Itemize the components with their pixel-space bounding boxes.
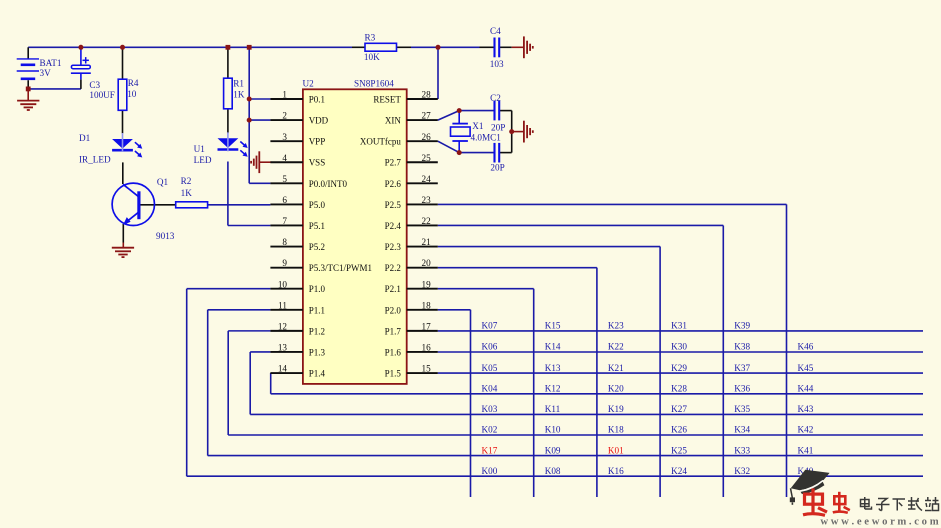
capacitor C2 top — [490, 93, 505, 132]
svg-text:P2.4: P2.4 — [385, 221, 402, 231]
pin 6 P5.0 — [270, 195, 325, 210]
wire R4 branch: rail to R4 to D1 to Q1 collector — [122, 47, 124, 184]
capacitor C4 — [490, 26, 504, 69]
svg-text:P2.3: P2.3 — [385, 242, 402, 252]
svg-text:XIN: XIN — [385, 116, 401, 126]
svg-text:K29: K29 — [671, 363, 687, 373]
svg-text:103: 103 — [490, 59, 504, 69]
svg-text:P1.4: P1.4 — [309, 369, 326, 379]
pin 22 P2.4 — [385, 216, 438, 231]
svg-text:16: 16 — [422, 343, 432, 353]
ground at pin4 VSS — [251, 151, 259, 173]
svg-text:K01: K01 — [608, 445, 624, 455]
svg-text:9: 9 — [282, 258, 287, 268]
svg-text:K38: K38 — [734, 342, 750, 352]
wire crystal node to C2 bottom — [459, 152, 493, 154]
svg-text:K26: K26 — [671, 425, 687, 435]
svg-text:VDD: VDD — [309, 116, 329, 126]
pin 21 P2.3 — [385, 237, 438, 252]
svg-text:P2.5: P2.5 — [385, 200, 402, 210]
svg-text:D1: D1 — [79, 133, 91, 143]
wire pin 21 key matrix column — [438, 247, 660, 497]
svg-text:K22: K22 — [608, 342, 624, 352]
svg-text:12: 12 — [278, 321, 288, 331]
svg-text:P5.3/TC1/PWM1: P5.3/TC1/PWM1 — [309, 263, 372, 273]
wire XOUT diagonal to crystal — [438, 141, 459, 152]
svg-text:U2: U2 — [303, 79, 315, 89]
svg-text:K45: K45 — [798, 363, 814, 373]
wire P1.2 (pin 12) to key matrix row — [228, 331, 923, 435]
ground below battery — [17, 101, 39, 110]
wire battery negative to ground/C3 — [28, 80, 81, 100]
svg-text:13: 13 — [278, 343, 288, 353]
svg-text:LED: LED — [194, 155, 212, 165]
svg-text:K35: K35 — [734, 404, 750, 414]
pin 26 XOUTfcpu — [360, 132, 438, 147]
pin 16 P1.6 — [385, 343, 438, 358]
pin 14 P1.4 — [270, 364, 325, 379]
svg-text:w w w . e e w o r m . c o m: w w w . e e w o r m . c o m — [820, 516, 938, 528]
svg-text:K24: K24 — [671, 466, 687, 476]
junction rail/R4 — [120, 45, 125, 50]
svg-text:1K: 1K — [181, 188, 193, 198]
svg-text:K39: K39 — [734, 321, 750, 331]
svg-text:28: 28 — [422, 90, 432, 100]
svg-text:P1.1: P1.1 — [309, 305, 325, 315]
svg-text:K42: K42 — [798, 425, 814, 435]
svg-text:21: 21 — [422, 237, 432, 247]
wire P1.4 (pin 14) to key matrix row — [271, 373, 923, 394]
svg-text:27: 27 — [422, 111, 432, 121]
svg-text:P5.1: P5.1 — [309, 221, 325, 231]
wire C3 leads — [80, 47, 82, 89]
capacitor C3 — [71, 57, 115, 100]
junction rail/R1 — [226, 45, 231, 50]
svg-text:K21: K21 — [608, 363, 624, 373]
svg-text:14: 14 — [278, 364, 288, 374]
wire pin 22 key matrix column — [438, 225, 724, 497]
svg-text:P5.0: P5.0 — [309, 200, 326, 210]
svg-text:K20: K20 — [608, 384, 624, 394]
svg-text:22: 22 — [422, 216, 432, 226]
svg-text:K31: K31 — [671, 321, 687, 331]
wire pin 19 key matrix column — [438, 289, 534, 497]
pin 9 P5.3/TC1/PWM1 — [270, 258, 372, 273]
svg-text:K25: K25 — [671, 445, 687, 455]
svg-text:C2: C2 — [490, 93, 501, 103]
svg-text:K28: K28 — [671, 384, 687, 394]
logo text dianzi xiazaizhan — [861, 497, 939, 511]
svg-text:K18: K18 — [608, 425, 624, 435]
svg-text:25: 25 — [422, 153, 432, 163]
svg-text:BAT1: BAT1 — [40, 58, 62, 68]
svg-text:K12: K12 — [545, 384, 561, 394]
svg-text:P1.2: P1.2 — [309, 326, 325, 336]
svg-text:P2.2: P2.2 — [385, 263, 401, 273]
pin 24 P2.6 — [385, 174, 438, 189]
svg-text:K33: K33 — [734, 445, 750, 455]
svg-text:P1.5: P1.5 — [385, 369, 402, 379]
junction rail/RESET — [436, 45, 441, 50]
ground right of C4 — [524, 36, 533, 58]
wire XIN diagonal to crystal — [438, 111, 459, 121]
svg-text:K15: K15 — [545, 321, 561, 331]
svg-text:15: 15 — [422, 364, 432, 374]
wire pin 17 key matrix row — [438, 330, 923, 332]
svg-text:17: 17 — [422, 321, 432, 331]
pin 10 P1.0 — [270, 279, 325, 294]
svg-text:K34: K34 — [734, 425, 750, 435]
pin 25 P2.7 — [385, 153, 438, 168]
pin 5 P0.0/INT0 — [270, 174, 347, 189]
svg-text:P0.0/INT0: P0.0/INT0 — [309, 179, 348, 189]
svg-text:3V: 3V — [40, 68, 52, 78]
capacitor C2 bottom — [490, 143, 504, 173]
pin 23 P2.5 — [385, 195, 438, 210]
junction C2 ground node — [509, 129, 514, 134]
svg-text:6: 6 — [282, 195, 287, 205]
resistor R4 — [118, 78, 139, 110]
svg-text:11: 11 — [278, 300, 287, 310]
svg-text:P2.1: P2.1 — [385, 284, 401, 294]
LED U1 — [194, 132, 248, 165]
svg-text:K46: K46 — [798, 342, 814, 352]
wire pin 20 key matrix column — [438, 268, 597, 497]
svg-text:R4: R4 — [128, 78, 139, 88]
wire pin4 VSS to ground — [259, 161, 271, 163]
svg-text:24: 24 — [422, 174, 432, 184]
svg-text:K05: K05 — [482, 363, 498, 373]
svg-text:P2.0: P2.0 — [385, 305, 402, 315]
svg-text:K16: K16 — [608, 466, 624, 476]
svg-text:XOUTfcpu: XOUTfcpu — [360, 137, 401, 147]
svg-text:P1.6: P1.6 — [385, 347, 402, 357]
wire pin 15 key matrix row — [438, 372, 923, 374]
svg-text:VPP: VPP — [309, 137, 326, 147]
svg-text:K30: K30 — [671, 342, 687, 352]
pin 18 P2.0 — [385, 300, 438, 315]
svg-text:100UF: 100UF — [89, 90, 115, 100]
svg-text:C3: C3 — [89, 80, 100, 90]
svg-text:18: 18 — [422, 300, 432, 310]
ground right of C2 — [524, 121, 533, 143]
wire pin 18 key matrix column — [438, 310, 471, 497]
svg-text:K06: K06 — [482, 342, 498, 352]
svg-text:U1: U1 — [194, 144, 206, 154]
pin 8 P5.2 — [270, 237, 325, 252]
svg-text:SN8P1604: SN8P1604 — [354, 79, 394, 89]
pin 19 P2.1 — [385, 279, 438, 294]
wire VDD net: rail to pins 1,2,5 — [249, 47, 270, 183]
wire Q1 emitter to ground — [122, 224, 124, 248]
svg-text:K02: K02 — [482, 425, 498, 435]
svg-text:K00: K00 — [482, 466, 498, 476]
svg-text:1K: 1K — [233, 89, 245, 99]
svg-text:K09: K09 — [545, 445, 561, 455]
svg-text:23: 23 — [422, 195, 432, 205]
pin 4 VSS — [270, 153, 325, 168]
svg-text:K11: K11 — [545, 404, 561, 414]
pin 12 P1.2 — [270, 321, 325, 336]
svg-text:RESET: RESET — [373, 95, 401, 105]
svg-text:R1: R1 — [233, 79, 244, 89]
svg-text:P1.0: P1.0 — [309, 284, 326, 294]
svg-text:9013: 9013 — [156, 231, 175, 241]
svg-text:P2.7: P2.7 — [385, 158, 402, 168]
svg-text:P1.7: P1.7 — [385, 326, 402, 336]
wire P1.1 (pin 11) to key matrix row — [208, 310, 923, 456]
svg-text:K04: K04 — [482, 384, 498, 394]
junction crystal top node — [457, 108, 462, 113]
wire R1 branch: rail to R1 to U1 — [227, 47, 229, 133]
pin 11 P1.1 — [270, 300, 325, 315]
wire P1.3 (pin 13) to key matrix row — [250, 352, 923, 414]
svg-text:K13: K13 — [545, 363, 561, 373]
wire pin 16 key matrix row — [438, 351, 923, 353]
svg-text:10: 10 — [127, 89, 137, 99]
resistor R1 — [224, 78, 245, 109]
ground below Q1 — [112, 248, 134, 257]
svg-text:K37: K37 — [734, 363, 750, 373]
svg-text:K03: K03 — [482, 404, 498, 414]
svg-text:Q1: Q1 — [157, 177, 169, 187]
wire RESET net: rail dot down to pin 28 — [437, 47, 439, 99]
wire crystal X1 leads — [458, 111, 460, 153]
pin 3 VPP — [270, 132, 325, 147]
svg-text:2: 2 — [282, 111, 287, 121]
pin 17 P1.7 — [385, 321, 438, 336]
resistor R3 — [364, 33, 397, 62]
pin 20 P2.2 — [385, 258, 438, 273]
crystal X1 — [451, 121, 502, 143]
svg-text:3: 3 — [282, 132, 287, 142]
svg-text:7: 7 — [282, 216, 287, 226]
svg-text:R3: R3 — [365, 33, 376, 43]
pin 7 P5.1 — [270, 216, 325, 231]
junction battery negative node — [26, 87, 31, 92]
svg-text:K36: K36 — [734, 384, 750, 394]
resistor R2 — [176, 176, 208, 208]
svg-text:C4: C4 — [490, 26, 501, 36]
svg-text:K10: K10 — [545, 425, 561, 435]
svg-text:VSS: VSS — [309, 158, 326, 168]
junction VDD/pin2 — [247, 118, 252, 123]
pin 1 P0.1 — [270, 90, 325, 105]
wire pin 23 key matrix column — [438, 204, 787, 497]
svg-text:P2.6: P2.6 — [385, 179, 402, 189]
svg-text:4.0MC1: 4.0MC1 — [471, 133, 502, 143]
svg-text:K43: K43 — [798, 404, 814, 414]
svg-text:R2: R2 — [181, 176, 192, 186]
junction crystal bottom node — [457, 150, 462, 155]
svg-text:K19: K19 — [608, 404, 624, 414]
svg-text:K14: K14 — [545, 342, 561, 352]
svg-text:P5.2: P5.2 — [309, 242, 325, 252]
wire P1.0 (pin 10) to key matrix row — [187, 289, 923, 476]
svg-text:K17: K17 — [482, 445, 498, 455]
svg-text:K44: K44 — [798, 384, 814, 394]
logo graduation cap — [790, 470, 830, 505]
pin 27 XIN — [385, 111, 438, 126]
svg-text:19: 19 — [422, 279, 432, 289]
logo chongchong red characters — [803, 488, 850, 515]
wire C2 right side to ground node — [500, 111, 523, 153]
svg-text:5: 5 — [282, 174, 287, 184]
junction VDD/pin1 — [247, 97, 252, 102]
wire Q1 base to R2 — [140, 204, 176, 206]
svg-text:P0.1: P0.1 — [309, 95, 325, 105]
LED D1 — [79, 133, 142, 165]
wire R2 to pin6 P5.0 — [208, 204, 271, 206]
svg-text:K41: K41 — [798, 445, 814, 455]
transistor Q1 9013 — [112, 177, 175, 241]
wire battery positive lead — [27, 47, 29, 58]
pin 13 P1.3 — [270, 343, 325, 358]
svg-text:K08: K08 — [545, 466, 561, 476]
svg-text:8: 8 — [282, 237, 287, 247]
wire U1 cathode to pin7 P5.1 — [228, 162, 271, 226]
svg-text:26: 26 — [422, 132, 432, 142]
battery BAT1 — [17, 58, 62, 79]
pin 15 P1.5 — [385, 364, 438, 379]
wire top power rail — [28, 46, 523, 48]
svg-text:K32: K32 — [734, 466, 750, 476]
svg-text:20P: 20P — [490, 163, 504, 173]
pin 28 RESET — [373, 90, 437, 105]
svg-text:10: 10 — [278, 279, 288, 289]
pin 2 VDD — [270, 111, 328, 126]
svg-text:X1: X1 — [472, 121, 484, 131]
wire crystal node to C2 top — [459, 110, 493, 112]
junction rail/C3 — [78, 45, 83, 50]
svg-text:K27: K27 — [671, 404, 687, 414]
svg-text:K23: K23 — [608, 321, 624, 331]
svg-text:1: 1 — [282, 90, 287, 100]
svg-text:20P: 20P — [491, 122, 505, 132]
svg-text:IR_LED: IR_LED — [79, 155, 111, 165]
junction rail/VDD line — [247, 45, 252, 50]
svg-text:P1.3: P1.3 — [309, 347, 326, 357]
svg-text:20: 20 — [422, 258, 432, 268]
svg-text:4: 4 — [282, 153, 287, 163]
op-amp U2 SN8P1604 IC body — [303, 79, 407, 384]
svg-text:K07: K07 — [482, 321, 498, 331]
svg-text:10K: 10K — [364, 52, 380, 62]
